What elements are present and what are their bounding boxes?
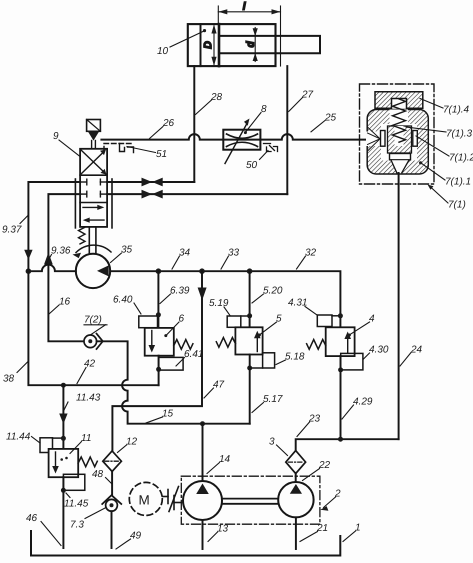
svg-text:4.30: 4.30: [369, 345, 389, 356]
svg-text:7(2): 7(2): [84, 315, 102, 326]
pilot box 5.19: [227, 316, 241, 327]
svg-text:38: 38: [3, 374, 15, 385]
svg-text:4.29: 4.29: [353, 397, 373, 408]
svg-text:9.36: 9.36: [51, 246, 71, 257]
manifold wire 34/33/32: [28, 265, 75, 272]
svg-text:7(1): 7(1): [448, 200, 466, 211]
bottom plate: [390, 154, 411, 160]
svg-text:46: 46: [26, 513, 38, 524]
pump 2: [278, 482, 313, 517]
valve 9 body: [80, 149, 107, 227]
svg-text:9: 9: [53, 131, 59, 142]
svg-text:13: 13: [217, 524, 229, 535]
wire 9.37 : upper-left port: [28, 182, 80, 271]
svg-text:7(1).2: 7(1).2: [449, 153, 473, 164]
svg-text:49: 49: [130, 531, 142, 542]
valve 4 spring: [307, 340, 326, 350]
wire 11.43 to valve 11: [62, 385, 64, 449]
filter 3: [286, 451, 306, 474]
svg-text:25: 25: [324, 113, 337, 124]
svg-text:5.18: 5.18: [285, 352, 305, 363]
dimension l arrowheads: [218, 9, 280, 14]
svg-text:D: D: [203, 41, 214, 48]
wire 28 : cylinder left pipe: [193, 66, 195, 182]
block body hatched: [367, 110, 428, 175]
pilot box 4.31: [317, 315, 332, 327]
svg-text:11: 11: [81, 433, 91, 444]
svg-text:14: 14: [219, 454, 231, 465]
manual adjust symbol 50: [264, 144, 278, 152]
coupler on line B: [142, 190, 163, 199]
wire 5.20 : drop to valve 5: [249, 271, 251, 327]
svg-text:28: 28: [210, 92, 223, 103]
detent symbol 51 (dashed): [104, 144, 134, 153]
wire from 7(2) down with hops: [97, 341, 250, 423]
solenoid of valve 9: [87, 120, 101, 132]
wire 46: [62, 477, 64, 548]
wire 6.39 : drop to valve 6: [157, 271, 159, 328]
svg-text:11.43: 11.43: [76, 393, 101, 404]
valve 4: [326, 327, 355, 356]
coupler on line A: [142, 178, 163, 187]
pilot box 11.45: [63, 474, 84, 490]
pilot box 6.41: [159, 357, 184, 370]
svg-text:15: 15: [162, 409, 174, 420]
svg-text:9.37: 9.37: [2, 225, 22, 236]
valve 5 spring: [216, 338, 235, 348]
valve 11: [49, 449, 79, 477]
svg-text:M: M: [139, 493, 150, 508]
svg-text:32: 32: [305, 248, 317, 259]
wire 14 : to pump 14: [202, 424, 204, 481]
cylinder rod: [219, 36, 320, 53]
svg-text:11.44: 11.44: [6, 432, 31, 443]
svg-text:51: 51: [156, 149, 167, 160]
svg-text:11.45: 11.45: [64, 499, 89, 510]
svg-text:6.39: 6.39: [170, 286, 190, 297]
wire 49: [111, 511, 113, 548]
valve 9 spring: [79, 228, 86, 244]
wire 24 : from block outlet down: [398, 173, 400, 439]
svg-text:27: 27: [301, 90, 314, 101]
electric motor M: [129, 482, 162, 515]
svg-text:26: 26: [162, 118, 175, 129]
svg-text:7(1).4: 7(1).4: [443, 105, 470, 116]
svg-text:1: 1: [355, 523, 361, 534]
wire below valve 6: [158, 356, 160, 386]
valve 9 to pump stem: [88, 227, 90, 255]
valve 9 cell3 arrows: [83, 206, 99, 208]
outlet funnel: [391, 160, 410, 173]
valve 6: [145, 328, 174, 356]
svg-text:50: 50: [246, 160, 258, 171]
wire 16 : lower-left port: [48, 194, 84, 341]
wire 48: [111, 472, 113, 496]
wire 5.17 below valve 5: [249, 355, 251, 424]
seat left 7(1).2: [381, 131, 386, 147]
solenoid stem: [91, 141, 93, 149]
pilot box 6.40: [139, 316, 158, 328]
svg-text:7(1).1: 7(1).1: [445, 177, 471, 188]
svg-text:7.3: 7.3: [70, 520, 84, 531]
pump 14: [183, 481, 222, 520]
svg-text:d: d: [245, 41, 256, 47]
svg-text:34: 34: [179, 248, 191, 259]
wire 23 : filter 3 to junction: [296, 439, 399, 451]
pumps dash-dot enclosure 2: [181, 476, 320, 524]
wire 27 : cylinder right pipe: [286, 66, 288, 194]
wire 38 continues to line 42: [28, 271, 158, 385]
port channel: [366, 132, 381, 147]
pilot box 11.44: [40, 438, 53, 453]
rotation arc: [76, 245, 111, 252]
svg-text:23: 23: [308, 414, 321, 425]
svg-text:5: 5: [276, 314, 282, 325]
valve 11 spring: [78, 457, 97, 467]
seat right: [413, 131, 418, 147]
svg-text:10: 10: [157, 46, 169, 57]
pump/motor 35: [76, 254, 110, 288]
wire 4.29: [340, 356, 342, 439]
pump shaft: [222, 498, 278, 500]
valve 9 proportional flank lines: [74, 179, 76, 228]
valve block 7(1) boundary (dash-dot): [360, 84, 435, 184]
svg-text:33: 33: [228, 248, 240, 259]
svg-text:5.20: 5.20: [263, 286, 283, 297]
svg-text:7(1).3: 7(1).3: [446, 129, 473, 140]
svg-text:6.41: 6.41: [184, 349, 203, 360]
check valve 7.3: [102, 495, 121, 504]
svg-text:48: 48: [92, 469, 104, 480]
pilot box 5.18: [263, 353, 275, 368]
svg-text:6: 6: [179, 314, 185, 325]
svg-text:4: 4: [369, 314, 375, 325]
wire filter3 to pump 2: [295, 473, 297, 482]
dimension l line: [218, 6, 280, 66]
cylinder piston: [218, 24, 221, 66]
svg-text:5.17: 5.17: [263, 394, 283, 405]
svg-text:5.19: 5.19: [209, 298, 229, 309]
dimension D arrowheads: [211, 25, 216, 66]
cylinder cap divider: [200, 24, 202, 66]
fan lines at port: [368, 128, 381, 151]
poppet 7(1).3 hatched: [388, 126, 412, 153]
svg-text:12: 12: [126, 437, 138, 448]
valve 9 cell2 blocked ports: [80, 179, 107, 197]
block 7(1).4 top cover hatched: [375, 92, 423, 109]
dimension D line: [213, 26, 215, 65]
svg-text:47: 47: [213, 380, 225, 391]
svg-text:3: 3: [269, 437, 275, 448]
valve 9 cell1 crossed arrows: [81, 150, 106, 174]
dimension d line: [254, 28, 256, 62]
valve 5: [235, 327, 262, 354]
dimension d arrowheads: [253, 28, 258, 61]
valve 6 spring: [174, 340, 193, 350]
wire to valve9 right ports with couplers: [107, 181, 194, 183]
svg-text:35: 35: [121, 245, 133, 256]
svg-text:16: 16: [59, 297, 71, 308]
tank line: [31, 531, 340, 556]
wire 13: [202, 520, 204, 549]
wire 47: [112, 271, 202, 451]
wire 26/25 : pilot line from valve 9 to block 7(1), hops over pipes: [101, 134, 380, 140]
pilot box 4.30: [341, 353, 363, 370]
check valve 7(2): [84, 335, 97, 348]
cylinder 10 body: [188, 24, 276, 66]
spring in block: [393, 99, 406, 142]
shaft coupling: [163, 487, 182, 512]
throttle valve 8: [223, 130, 260, 150]
wire 21: [295, 517, 297, 549]
svg-text:21: 21: [316, 523, 328, 534]
svg-text:22: 22: [318, 460, 331, 471]
body cavity: [390, 110, 409, 126]
svg-text:24: 24: [410, 345, 423, 356]
filter 12: [103, 451, 122, 472]
svg-text:8: 8: [261, 104, 267, 115]
svg-text:6.40: 6.40: [113, 295, 133, 306]
